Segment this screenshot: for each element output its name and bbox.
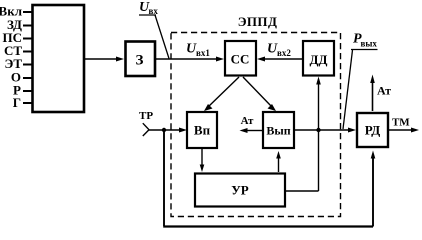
junction node Pвых — [316, 128, 320, 132]
svg-text:ТМ: ТМ — [392, 117, 410, 129]
input block (command unit) — [33, 5, 85, 112]
wire Вп to УР — [201, 149, 203, 167]
wire УР to Вып — [278, 157, 280, 172]
wire bottom rail up to РД — [372, 158, 374, 227]
wire Вып to РД, net Pвых — [295, 129, 350, 131]
svg-text:УР: УР — [231, 183, 249, 198]
wire Вып to Ат vent — [246, 130, 262, 132]
block З (setter) — [126, 42, 156, 77]
svg-text:вх2: вх2 — [277, 48, 291, 58]
svg-text:вых: вых — [361, 39, 378, 49]
wire bottom rail — [163, 225, 373, 227]
block УР (control device) — [195, 174, 285, 207]
wire ТР to Вп — [149, 129, 181, 131]
svg-text:ТР: ТР — [139, 110, 153, 122]
block Вып (outlet valve) — [263, 112, 294, 148]
svg-text:Вып: Вып — [266, 124, 290, 138]
dashed boundary ЭППД — [171, 33, 341, 217]
wire junction to ДД — [318, 83, 320, 130]
wire ДД to СС, net Uвх2 — [263, 58, 303, 60]
svg-text:Вп: Вп — [194, 123, 211, 138]
wire РД to ТМ output — [389, 129, 413, 131]
block Вп (inlet valve) — [187, 112, 217, 148]
svg-text:Ат: Ат — [377, 84, 391, 98]
svg-text:З: З — [136, 53, 144, 69]
svg-text:Ат: Ат — [241, 115, 254, 127]
svg-text:СС: СС — [231, 52, 250, 67]
junction ТР node — [162, 128, 166, 132]
block ДД (pressure sensor) — [303, 41, 334, 76]
wire СС to Вп (diagonal) — [208, 77, 239, 107]
wire РД to Ат (top vent) — [372, 81, 374, 111]
wire УР to junction — [286, 190, 319, 192]
wire input block to З — [84, 58, 118, 60]
wire СС to Вып (diagonal) — [243, 77, 272, 107]
svg-text:вх1: вх1 — [196, 48, 210, 58]
svg-text:ДД: ДД — [310, 52, 328, 67]
svg-text:РД: РД — [365, 123, 381, 138]
block СС (comparison element) — [225, 41, 256, 76]
block РД (relay) — [357, 113, 388, 147]
svg-text:ЭППД: ЭППД — [238, 14, 278, 29]
svg-text:Г: Г — [13, 95, 21, 110]
wire З to СС, net Uвх1 — [156, 58, 218, 60]
wire ТР junction down — [163, 130, 165, 226]
